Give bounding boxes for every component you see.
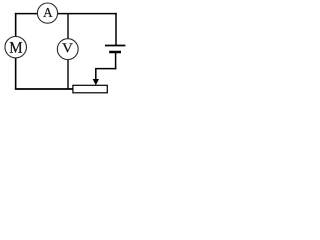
wire: battery bottom terminal down <box>115 53 117 69</box>
ammeter A: label <box>43 8 52 17</box>
wire: right vertical from top wire down to battery top plate <box>115 13 117 45</box>
wire: wiper horizontal from rheostat wiper to battery branch <box>95 68 116 70</box>
battery B1: long thin plate <box>105 45 125 47</box>
rheostat wiper arrowhead <box>93 79 99 85</box>
wire: top horizontal from top-left corner to top-right corner <box>15 13 117 15</box>
motor M: circle <box>5 36 27 58</box>
wire: bottom horizontal from bottom-left corner to rheostat left terminal <box>15 88 73 90</box>
background <box>0 0 130 97</box>
ammeter A: circle <box>37 3 57 23</box>
rheostat R1 body rectangle <box>73 85 107 93</box>
voltmeter V: circle <box>57 39 78 60</box>
wire: wiper vertical shaft <box>95 68 97 80</box>
wire: voltmeter branch vertical at x=68 <box>67 13 69 90</box>
motor M: label <box>10 42 22 53</box>
voltmeter V: label <box>62 43 73 52</box>
wire: left vertical from top-left corner down to bottom-left corner <box>15 13 17 90</box>
battery B1: short thick plate <box>109 51 121 54</box>
